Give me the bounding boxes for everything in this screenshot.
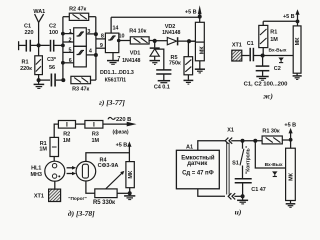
svg-text:14: 14 [112,26,118,32]
svg-text:C2: C2 [274,66,281,72]
svg-text:1М: 1М [63,138,71,144]
ground [124,193,135,199]
svg-text:МК: МК [295,37,301,46]
svg-text:HL1: HL1 [31,166,41,172]
svg-text:+5 В: +5 В [284,122,296,128]
sensor A1 box [176,150,219,189]
svg-text:C3*: C3* [47,57,57,63]
+5V arrow [198,5,202,22]
resistor R4 10k [119,37,155,44]
potentiometer R5 330k [95,171,130,198]
wire [242,55,250,57]
neon lamp HL1 MN3 [45,161,65,181]
svg-text:1: 1 [69,29,72,35]
+5V arrow [295,9,299,26]
svg-text:5: 5 [69,48,72,54]
svg-text:220к: 220к [20,66,32,72]
resistor R2 1M [54,121,85,138]
pin wires 1,2,5,6 [63,34,74,63]
svg-text:1М: 1М [270,37,278,43]
pin 8 wire [96,38,106,40]
+5V arrow [289,128,293,148]
node [128,191,132,195]
svg-text:Вх-Вых: Вх-Вых [269,48,287,54]
Kontrol label [245,145,251,174]
caption i) [235,208,242,217]
svg-text:R1: R1 [22,60,29,66]
MK box [293,26,301,73]
diode VD2 1N4148 [155,37,196,45]
node [61,78,65,82]
svg-text:56: 56 [49,65,55,71]
pin 9 wire [96,47,106,49]
node A [187,39,191,43]
wire node to MK bottom [129,188,131,194]
svg-text:220: 220 [24,30,33,36]
ground [237,196,248,204]
svg-text:WA1: WA1 [33,9,45,15]
svg-text:X1: X1 [227,128,234,134]
svg-text:100: 100 [49,30,58,36]
svg-text:C4 0.1: C4 0.1 [154,85,170,91]
MK box [286,148,296,200]
resistor R3 47k [71,76,96,83]
svg-text:VD1: VD1 [130,51,141,57]
capacitor C1 220 [26,40,30,52]
wire [31,44,50,46]
MK box [126,162,134,188]
pin 14 riser and +5V wire [111,17,200,33]
svg-text:R3 47к: R3 47к [72,86,89,92]
connector X1 bottom [228,193,242,199]
svg-text:МК: МК [288,172,294,181]
MK box [195,22,204,61]
Porog label [68,196,86,202]
+5V arrow [127,141,131,161]
resistor R1 220k [35,45,43,80]
svg-text:XT1: XT1 [34,193,44,199]
gate DD1.1 [74,28,87,47]
svg-text:DD1.1...DD1.3: DD1.1...DD1.3 [100,70,134,76]
resistor R2 47k [63,13,96,34]
svg-text:R2: R2 [63,132,70,138]
ground [150,61,161,65]
connector X1 top [225,138,262,144]
svg-text:МН3: МН3 [30,172,41,178]
svg-text:C1 47: C1 47 [251,187,265,193]
photoresistor R4 SF3-9A [76,161,96,181]
ground [34,80,45,88]
svg-text:и): и) [235,208,242,217]
svg-text:R4 10к: R4 10к [129,29,146,35]
svg-text:C2: C2 [49,23,56,29]
probe XT1 [49,181,61,201]
svg-text:г) [3-77]: г) [3-77] [99,98,125,107]
svg-text:1М: 1М [92,138,100,144]
svg-text:(фаза): (фаза) [112,128,128,135]
wire node A to MK [189,40,195,42]
A1 bottom wire [198,189,225,197]
svg-text:+5 В: +5 В [116,142,128,148]
wire node down to MK input [255,141,285,168]
220V arrow [108,117,137,126]
resistor R1 1M [50,137,59,161]
svg-text:6: 6 [69,58,72,64]
wire [54,44,63,46]
output rail [95,34,97,80]
caption d) [3-78] [68,209,95,218]
capacitor C1 47 [235,179,252,197]
svg-text:датчик: датчик [187,161,207,167]
C1,C2 value note [244,81,289,87]
input terminal [19,41,26,50]
svg-text:A1: A1 [186,145,193,151]
switch S1 [241,139,245,143]
svg-text:ж): ж) [263,92,273,101]
node [37,78,41,82]
A1 top wire [198,141,225,151]
connector linkage line [227,143,229,195]
probe XT1 [232,50,242,61]
caption g) [3-77] [99,98,125,107]
resistor R1 1M [259,21,298,55]
svg-text:д) [3-78]: д) [3-78] [68,209,95,218]
capacitor C1 [250,48,293,62]
svg-text:10: 10 [119,33,125,39]
ground [256,77,268,81]
light arrows [67,166,77,175]
svg-text:R5 330к: R5 330к [93,200,115,206]
resistor R5 750k [184,41,193,79]
svg-text:R3: R3 [92,132,99,138]
svg-text:1N4148: 1N4148 [122,58,140,64]
svg-text:C1: C1 [247,41,254,47]
capacitor C3* 56 [39,74,64,87]
pin 3 wire [86,33,96,35]
node [153,39,157,43]
svg-text:К561ТЛ1: К561ТЛ1 [105,78,127,84]
svg-text:"Контроль": "Контроль" [245,145,251,174]
svg-text:8: 8 [101,34,104,40]
input rail [62,17,64,80]
svg-text:C1, C2 100...200: C1, C2 100...200 [244,81,289,87]
in-out arrow symbol [278,58,283,63]
in-out arrow symbol [272,171,277,176]
svg-text:XT1: XT1 [232,43,242,49]
svg-text:1N4148: 1N4148 [162,30,180,36]
pin 7 ground [107,53,119,65]
node [241,194,245,198]
MK ground [286,201,296,208]
svg-text:R2 47к: R2 47к [69,6,86,12]
svg-text:Сд = 47 пФ: Сд = 47 пФ [182,171,214,177]
svg-text:4: 4 [89,49,92,55]
caption zh) [263,92,273,101]
svg-text:C1: C1 [24,23,31,29]
Vh-Vyh label [269,48,287,54]
resistor R1 30k [262,136,291,144]
ground [184,80,194,84]
Vh-Vyh label [265,162,283,168]
svg-text:+5 В: +5 В [283,14,295,20]
svg-text:+5 В: +5 В [185,10,197,16]
node: antenna junction [37,43,41,47]
svg-text:R1: R1 [270,30,277,36]
svg-text:9: 9 [100,43,103,49]
svg-text:2: 2 [69,37,72,43]
MK ground [293,73,302,79]
pin 4 wire [86,54,96,56]
R4 bottom wire to R5 [86,181,95,193]
svg-text:750к: 750к [169,61,181,67]
svg-text:"Порог": "Порог" [68,196,86,202]
MK ground [195,61,205,73]
capacitor C4 0.1 [156,49,172,80]
node [289,138,293,142]
ground [158,81,170,83]
DD1 designation [100,70,134,84]
svg-text:МК: МК [128,170,134,179]
node before R1 [253,139,257,143]
svg-text:1М: 1М [39,147,47,153]
svg-text:Вх-Вых: Вх-Вых [265,162,283,168]
capacitor C2 [256,56,270,76]
capacitor C2 100 [51,40,54,52]
diode VD1 1N4148 [150,41,160,60]
node [296,20,300,24]
gate DD1.2 [74,46,87,67]
svg-text:220 В: 220 В [116,117,131,123]
gate DD1.3 [105,33,118,53]
svg-text:S1: S1 [232,161,239,167]
svg-text:R1 30к: R1 30к [262,128,279,134]
svg-text:МК: МК [200,46,206,55]
resistor R3 1M [85,121,127,129]
svg-text:СФ3-9А: СФ3-9А [98,163,119,169]
node [261,54,265,58]
R4 top wire to +5 rail [86,153,129,162]
antenna WA1 [35,14,44,45]
svg-text:3: 3 [87,29,90,35]
